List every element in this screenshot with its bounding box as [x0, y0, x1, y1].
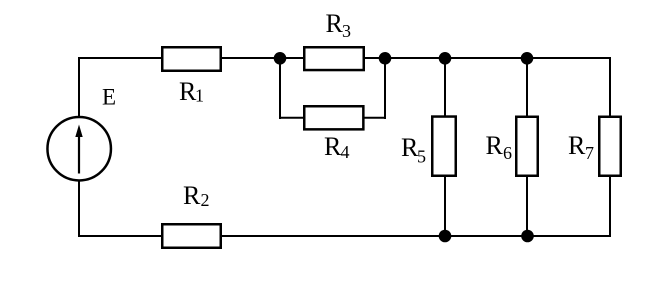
svg-text:6: 6	[503, 143, 512, 163]
wire: right vertical (R7 branch)	[609, 57, 611, 237]
node A: junction dot left of R3/R4 pair	[274, 52, 287, 65]
svg-text:R: R	[486, 131, 504, 160]
svg-text:R: R	[183, 181, 201, 210]
svg-text:5: 5	[417, 146, 426, 166]
svg-text:E: E	[102, 85, 116, 110]
label R6	[486, 131, 513, 163]
resistor R4	[304, 106, 363, 129]
svg-text:2: 2	[201, 190, 210, 210]
resistor R2	[162, 224, 221, 248]
label R1	[179, 77, 204, 106]
node: junction dot top of R5	[439, 52, 452, 65]
wire: R4 branch right vertical	[384, 58, 386, 119]
svg-text:R: R	[324, 132, 342, 161]
source E: current source circle with upward arrow	[47, 117, 111, 181]
svg-text:R: R	[326, 9, 344, 38]
resistor R5	[432, 117, 456, 176]
wire: top horizontal from source top corner to R7 branch	[78, 57, 611, 59]
svg-text:1: 1	[195, 86, 204, 106]
svg-text:4: 4	[341, 142, 350, 162]
label R2	[183, 181, 210, 210]
svg-text:3: 3	[342, 21, 351, 41]
node B: junction dot right of R3/R4 pair	[379, 52, 392, 65]
wire: bottom horizontal	[78, 235, 611, 237]
svg-text:7: 7	[585, 143, 594, 163]
resistor R1	[162, 47, 221, 71]
label R7	[568, 131, 594, 163]
resistor R7	[599, 117, 621, 176]
wire: R4 branch left vertical	[279, 58, 281, 119]
wire: R6 branch vertical	[526, 58, 528, 236]
node: junction dot top of R6	[521, 52, 534, 65]
resistor R3	[304, 47, 364, 70]
wire: left vertical through source E	[78, 57, 80, 237]
wire: R5 branch vertical	[444, 58, 446, 236]
wire: R4 branch bottom horizontal	[279, 117, 386, 119]
label R4	[324, 132, 350, 162]
node: junction dot bottom of R5	[439, 230, 452, 243]
label R3	[326, 9, 352, 41]
node: junction dot bottom of R6	[521, 230, 534, 243]
svg-text:R: R	[568, 131, 586, 160]
resistor R6	[516, 117, 538, 176]
label R5	[401, 133, 426, 166]
